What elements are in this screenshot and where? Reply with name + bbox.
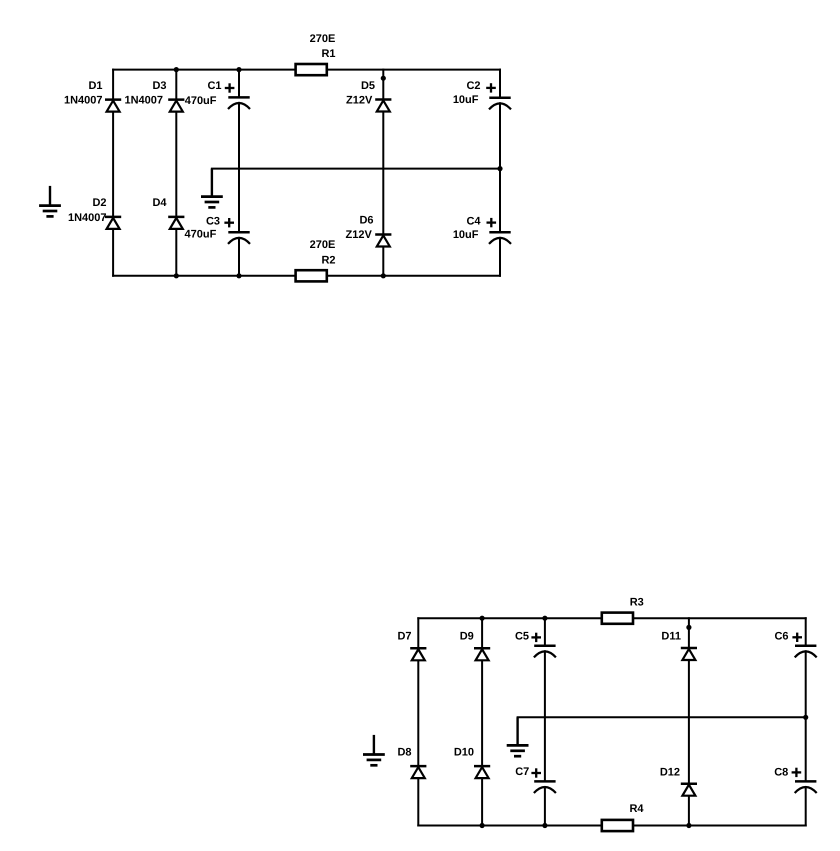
capacitor C2 (489, 98, 511, 110)
capacitor C4 (489, 232, 511, 244)
svg-text:C7: C7 (515, 766, 529, 778)
svg-text:R4: R4 (629, 803, 644, 815)
wire C1/C3 branch lower (238, 238, 240, 276)
wire top rail (bottom circuit) (418, 617, 805, 619)
diode D11 (681, 648, 697, 660)
wire mid rail (bottom circuit) (518, 716, 806, 718)
wire bottom rail (bottom circuit) (418, 825, 805, 827)
svg-text:C1: C1 (207, 80, 221, 92)
svg-text:D9: D9 (460, 630, 474, 642)
node junction C5/top rail (542, 616, 547, 621)
wire D7/D8 branch (417, 618, 419, 825)
svg-text:D6: D6 (359, 215, 373, 227)
svg-text:D8: D8 (397, 747, 411, 759)
diode D8 (410, 766, 426, 778)
diode D7 (410, 648, 426, 660)
node junction D6/bottom rail (381, 273, 386, 278)
ground GND1 (floating, top circuit) (39, 186, 61, 217)
svg-text:270E: 270E (310, 33, 336, 45)
capacitor C5 (534, 646, 556, 658)
svg-text:R1: R1 (321, 48, 335, 60)
wire D1/D2 branch (112, 70, 114, 276)
wire D9/D10 branch (481, 618, 483, 825)
wire D5/D6 branch (382, 70, 384, 276)
svg-text:C4: C4 (466, 216, 481, 228)
svg-text:C5: C5 (515, 630, 529, 642)
polarity + (C7) (531, 768, 541, 777)
resistor R2 (296, 270, 327, 281)
svg-text:C2: C2 (466, 80, 480, 92)
wire C5/C7 branch middle (544, 651, 546, 781)
capacitor C7 (534, 781, 556, 793)
wire C1/C3 branch middle (238, 103, 240, 232)
wire top rail (top circuit) (113, 69, 500, 71)
resistor R4 (602, 820, 633, 831)
ground GND3 (floating, bottom circuit) (363, 735, 385, 765)
diode D3 (168, 100, 184, 112)
svg-text:D7: D7 (397, 630, 411, 642)
diode D4 (168, 217, 184, 229)
capacitor C8 (795, 781, 817, 793)
node junction D11 feed (686, 625, 691, 630)
wire C6/C8 branch lower (805, 787, 807, 826)
svg-text:270E: 270E (310, 239, 336, 251)
diode D5 (375, 100, 391, 112)
wire C6/C8 branch upper (805, 618, 807, 646)
svg-text:10uF: 10uF (453, 229, 479, 241)
svg-text:D1: D1 (88, 80, 102, 92)
diode D1 (105, 100, 121, 112)
diode D12 (681, 784, 697, 796)
ground GND4 (mid rail, bottom circuit) (507, 717, 529, 756)
node junction D12/bottom rail (686, 823, 691, 828)
svg-text:D12: D12 (660, 766, 680, 778)
svg-text:Z12V: Z12V (346, 95, 373, 107)
node junction D4/bottom rail (174, 273, 179, 278)
resistor R1 (296, 64, 327, 75)
node junction C7/bottom rail (542, 823, 547, 828)
node junction D5 feed (381, 76, 386, 81)
wire D11/D12 branch (688, 618, 690, 825)
wire D3/D4 branch (175, 70, 177, 276)
polarity + (C1) (225, 83, 235, 92)
node junction C3/bottom rail (236, 273, 241, 278)
svg-text:D11: D11 (661, 630, 681, 642)
svg-text:Z12V: Z12V (346, 229, 373, 241)
wire C2/C4 branch middle (499, 103, 501, 232)
polarity + (C3) (224, 218, 234, 227)
polarity + (C6) (792, 633, 802, 642)
diode D6 (375, 235, 391, 247)
node junction C1/top rail (236, 67, 241, 72)
polarity + (C2) (486, 83, 496, 92)
svg-text:1N4007: 1N4007 (68, 212, 107, 224)
svg-text:C3: C3 (206, 215, 220, 227)
wire C5/C7 branch lower (544, 787, 546, 826)
svg-text:C8: C8 (774, 766, 788, 778)
capacitor C1 (228, 97, 250, 109)
wire C1/C3 branch upper (238, 70, 240, 98)
node junction D9/top rail (480, 616, 485, 621)
svg-text:D10: D10 (454, 747, 474, 759)
svg-text:D4: D4 (152, 197, 167, 209)
diode D2 (105, 217, 121, 229)
node junction mid rail/C2-C4 branch (497, 166, 502, 171)
wire bottom rail (top circuit) (113, 275, 500, 277)
polarity + (C5) (531, 633, 541, 642)
svg-text:R3: R3 (630, 597, 644, 609)
wire C6/C8 branch middle (805, 651, 807, 781)
capacitor C6 (795, 646, 817, 658)
node junction D10/bottom rail (480, 823, 485, 828)
svg-text:D2: D2 (92, 197, 106, 209)
svg-text:D5: D5 (361, 80, 375, 92)
wire C5/C7 branch upper (544, 618, 546, 646)
svg-text:D3: D3 (152, 80, 166, 92)
svg-text:1N4007: 1N4007 (64, 95, 103, 107)
polarity + (C4) (487, 218, 497, 227)
ground GND2 (mid rail, top circuit) (201, 169, 223, 208)
node junction mid rail/C6-C8 branch (803, 715, 808, 720)
node junction D3/top rail (174, 67, 179, 72)
svg-text:R2: R2 (321, 254, 335, 266)
svg-text:1N4007: 1N4007 (124, 95, 163, 107)
svg-text:10uF: 10uF (453, 94, 479, 106)
wire C2/C4 branch lower (499, 238, 501, 276)
svg-text:C6: C6 (774, 630, 788, 642)
svg-text:470uF: 470uF (185, 95, 217, 107)
wire mid rail (top circuit) (212, 168, 500, 170)
capacitor C3 (228, 232, 250, 244)
resistor R3 (602, 613, 633, 624)
diode D9 (474, 648, 490, 660)
diode D10 (474, 766, 490, 778)
polarity + (C8) (792, 768, 802, 777)
wire C2/C4 branch upper (499, 70, 501, 98)
svg-text:470uF: 470uF (185, 229, 217, 241)
